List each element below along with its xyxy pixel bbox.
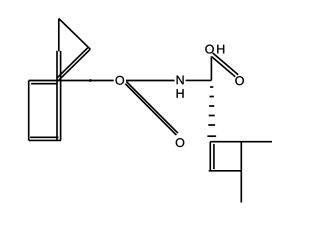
wire: rectangle left edge bond — [28, 81, 30, 141]
wire: right vertical pair line 1 — [56, 51, 58, 141]
wire: ring right edge + lower methyl — [240, 142, 242, 203]
wire: bond alpha C to carboxyl C — [210, 56, 212, 80]
wire: rectangle bottom edge bond — [29, 139, 61, 141]
wire: ring top edge + methyl — [210, 141, 272, 143]
wire: bond N to alpha carbon — [186, 79, 212, 81]
node: carbonyl oxygen label O — [176, 138, 185, 147]
wire: carbamate C=O line 1 — [126, 82, 178, 134]
wire: ring left outer edge — [209, 142, 211, 171]
wire: carbamate C=O line 2 — [125, 84, 176, 135]
node: amide nitrogen label N — [177, 76, 184, 85]
wire: carboxyl C=O line 2 — [212, 57, 236, 77]
wire: rectangle top inner double-bond line — [31, 83, 57, 85]
node: hydroxyl label OH — [205, 45, 214, 54]
node: amide hydrogen label H — [177, 89, 184, 98]
wire: rectangle bottom inner double-bond line — [30, 136, 58, 138]
wire: bond ester O to N — [126, 80, 175, 82]
node: acid carbonyl oxygen label O — [235, 76, 244, 85]
wire: ring bottom edge — [209, 170, 242, 172]
node: hydroxyl label H part — [217, 45, 224, 54]
wire: rectangle top edge + chain bond to ester O — [29, 80, 114, 82]
wire: triangle upper edge — [59, 19, 91, 50]
node: CH2 junction dot — [89, 79, 92, 82]
wire: triangle apex vertical bond — [58, 19, 60, 52]
wire: carboxyl C=O line 1 — [213, 53, 239, 75]
wire: ring left inner double-bond line — [213, 144, 215, 169]
wire: triangle hypotenuse inner double-bond line — [57, 47, 89, 78]
wire: hashed wedge bond — [207, 87, 216, 136]
node: ester oxygen label O — [116, 76, 125, 85]
wire: right vertical pair line 2 — [60, 51, 62, 141]
wire: triangle hypotenuse outer line — [59, 49, 91, 80]
